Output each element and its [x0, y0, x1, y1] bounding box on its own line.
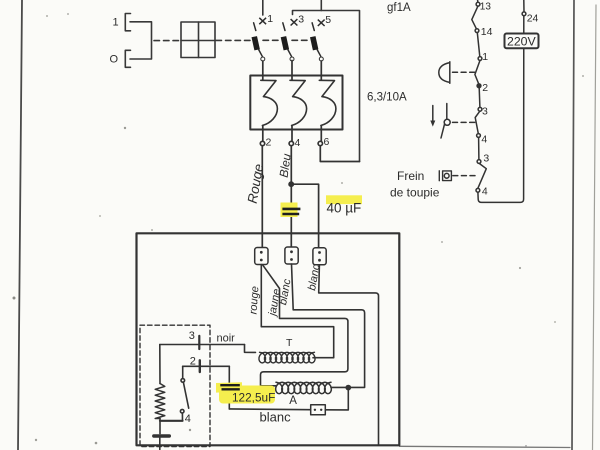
svg-text:A: A [289, 395, 297, 407]
svg-text:6: 6 [324, 136, 330, 148]
svg-text:O: O [110, 54, 119, 66]
svg-text:220V: 220V [507, 34, 537, 48]
svg-text:4: 4 [185, 413, 191, 425]
svg-text:4: 4 [482, 186, 488, 198]
svg-text:T: T [286, 337, 293, 349]
svg-text:3: 3 [482, 106, 488, 118]
svg-text:13: 13 [480, 2, 492, 13]
svg-text:24: 24 [527, 13, 539, 25]
svg-text:blanc: blanc [260, 410, 292, 425]
svg-text:4: 4 [295, 137, 301, 149]
svg-text:gf1A: gf1A [387, 2, 411, 14]
svg-text:noir: noir [217, 333, 236, 345]
svg-text:rouge: rouge [248, 286, 262, 315]
svg-text:2: 2 [266, 137, 272, 149]
svg-text:6,3/10A: 6,3/10A [367, 92, 407, 104]
svg-text:2: 2 [482, 82, 488, 94]
svg-text:5: 5 [325, 14, 331, 26]
svg-text:2: 2 [190, 355, 196, 367]
svg-text:122,5uF: 122,5uF [232, 390, 275, 404]
svg-text:14: 14 [481, 26, 493, 38]
svg-text:3: 3 [483, 153, 489, 165]
svg-text:3: 3 [298, 14, 304, 26]
svg-text:de toupie: de toupie [390, 186, 440, 200]
svg-text:40 µF: 40 µF [327, 201, 362, 216]
svg-text:1: 1 [482, 51, 488, 63]
svg-text:Frein: Frein [397, 169, 424, 183]
svg-text:4: 4 [481, 134, 487, 146]
svg-text:1: 1 [267, 13, 273, 25]
svg-text:3: 3 [189, 330, 195, 342]
svg-text:1: 1 [113, 17, 119, 29]
